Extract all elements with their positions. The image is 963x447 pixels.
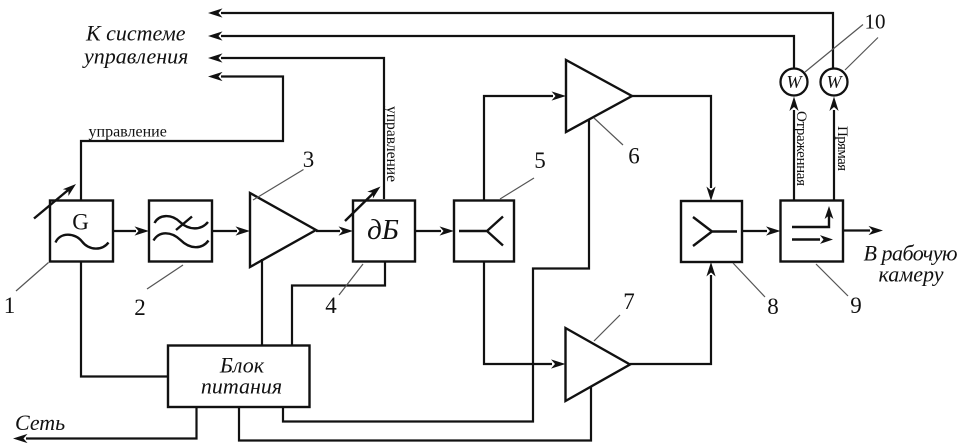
wire amp7 out to combiner bottom	[630, 275, 711, 364]
wire coupler to W1 reflected	[793, 110, 795, 201]
arrowhead into amp6	[552, 91, 567, 100]
arrowhead coupler output	[869, 226, 884, 235]
wire line4 Z-path to generator top	[81, 77, 283, 201]
amplifier 3	[250, 193, 316, 267]
coupler block 9	[781, 201, 844, 262]
coupler through arrow	[792, 235, 833, 244]
power supply block	[168, 346, 310, 408]
wire attenuator to power supply	[292, 262, 385, 346]
callout line 2	[147, 265, 183, 289]
svg-text:Прямая: Прямая	[834, 126, 850, 171]
arrowhead into splitter	[440, 226, 455, 235]
arrowhead into W1	[789, 97, 798, 112]
amplifier 6	[566, 60, 632, 132]
svg-text:6: 6	[628, 144, 640, 169]
filter lower sine	[154, 233, 209, 247]
wire attenuator to splitter	[415, 230, 441, 232]
arrowhead line3	[208, 53, 223, 62]
wire filter to amp3	[212, 230, 237, 232]
svg-text:питания: питания	[201, 374, 282, 399]
arrowhead into filter	[135, 226, 150, 235]
svg-text:К системе: К системе	[85, 21, 186, 46]
svg-text:W: W	[827, 72, 844, 92]
coupler up arrow	[792, 206, 833, 227]
arrowhead into amp7	[551, 359, 566, 368]
callout line 3	[253, 170, 304, 201]
wire line3 to attenuator top	[221, 58, 384, 199]
svg-text:1: 1	[4, 293, 16, 318]
callout line 1	[16, 263, 49, 292]
wire amp3 to attenuator	[316, 230, 340, 232]
svg-text:9: 9	[850, 293, 862, 318]
generator block 1	[50, 201, 113, 262]
attenuator adjust arrow	[345, 187, 381, 222]
wire amp3 to power supply	[261, 259, 263, 346]
arrowhead line1	[208, 8, 223, 17]
svg-text:G: G	[72, 210, 89, 235]
wire combiner to coupler	[742, 230, 767, 232]
svg-text:10: 10	[865, 10, 886, 34]
svg-text:управление: управление	[383, 106, 400, 182]
generator sine	[56, 235, 109, 249]
wire G to filter	[113, 230, 136, 232]
arrowhead into amp3	[236, 226, 251, 235]
arrowhead line4	[208, 72, 223, 81]
arrowhead into attenuator	[339, 226, 354, 235]
attenuator block 4	[353, 201, 415, 262]
wire generator to power supply	[81, 262, 168, 377]
splitter block 5	[454, 201, 514, 262]
combiner symbol	[693, 217, 737, 246]
svg-text:дБ: дБ	[367, 214, 399, 246]
svg-text:2: 2	[134, 295, 146, 320]
amplifier 7	[566, 328, 631, 401]
svg-text:3: 3	[303, 147, 315, 172]
svg-text:7: 7	[623, 289, 635, 314]
svg-text:4: 4	[325, 293, 337, 318]
svg-text:Сеть: Сеть	[15, 410, 65, 435]
wire amp6 out to combiner top	[632, 96, 711, 188]
arrowhead line2	[208, 31, 223, 40]
svg-text:W: W	[787, 72, 804, 92]
wattmeter W2	[821, 69, 848, 96]
callout line 7	[594, 315, 620, 341]
callout line 4	[339, 264, 363, 295]
wire power supply to amp6	[283, 119, 589, 422]
filter upper sine	[155, 216, 209, 228]
wattmeter W1	[781, 69, 808, 96]
wire splitter bottom to amp7	[484, 262, 552, 365]
svg-text:Отраженная: Отраженная	[793, 111, 809, 186]
wire coupler to W2 forward	[833, 110, 835, 201]
splitter symbol	[459, 217, 503, 246]
callout line 10b	[845, 38, 878, 71]
generator adjust arrow	[34, 184, 76, 219]
wire splitter top to amp6	[484, 96, 553, 201]
arrowhead into W2	[829, 97, 838, 112]
callout line 9	[816, 264, 848, 296]
svg-text:камеру: камеру	[879, 262, 944, 287]
arrowhead mains	[13, 434, 28, 443]
wire power supply to amp7	[239, 387, 591, 441]
callout line 10a	[805, 25, 863, 73]
wire line2 to W1	[221, 36, 794, 68]
svg-text:управление: управление	[89, 124, 167, 141]
arrowhead into combiner bottom	[706, 262, 715, 277]
arrowhead into coupler	[766, 226, 781, 235]
wire power supply to mains	[26, 407, 197, 439]
filter block 2	[149, 201, 212, 262]
callout line 6	[594, 118, 623, 145]
svg-text:управления: управления	[82, 44, 188, 69]
arrowhead into combiner top	[706, 187, 715, 202]
wire line1 top to W2	[221, 13, 833, 68]
svg-text:8: 8	[767, 294, 779, 319]
wire coupler output	[843, 229, 870, 231]
svg-text:5: 5	[534, 148, 546, 173]
combiner block 8	[681, 201, 742, 262]
callout line 5	[500, 178, 534, 199]
filter cross stroke	[176, 217, 192, 231]
callout line 8	[733, 263, 765, 297]
